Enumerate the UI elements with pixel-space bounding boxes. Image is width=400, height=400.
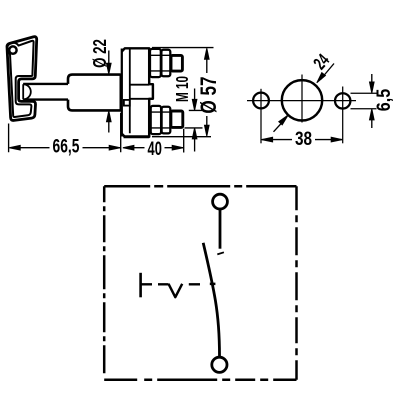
dim M10 arrows+ext [194,89,196,152]
dim 38 [262,139,342,141]
shaft D-end [23,84,31,99]
key outer outline [7,37,37,121]
cylinder O22 [68,75,121,111]
actuator V notch [169,284,183,297]
dim O22 arrows [108,51,110,133]
big circle vertical centerline [301,75,303,123]
dashed box top [104,185,296,188]
stud thread top M10 [171,55,182,71]
svg-text:24: 24 [310,50,334,74]
wire top [219,210,222,249]
dashed box right [295,186,298,380]
stud nut top 2 [161,50,170,77]
svg-text:66,5: 66,5 [53,135,80,157]
switch blade [203,243,219,356]
dim 66,5 [9,113,121,152]
dim 6,5 arrows [371,74,373,128]
svg-text:M 10: M 10 [174,76,193,102]
dim 6,5 ext lines [351,93,377,109]
svg-text:Ø 57: Ø 57 [197,76,222,113]
dim O57 ext lines [152,48,214,137]
actuator dashed link [142,283,216,286]
housing small box [124,100,130,106]
housing mid lines [130,85,149,99]
actuator T-bar [139,273,142,298]
small circle right centerline [342,87,344,144]
leader 24 lower [274,122,284,132]
svg-text:40: 40 [148,138,162,159]
shaft [23,84,68,100]
stud thread bottom M10 [171,111,183,127]
housing inner line [129,49,131,134]
dim 40 [183,129,185,153]
stud nut top 1 [150,49,161,77]
terminal circle top [213,194,228,209]
centerline horizontal [247,100,356,102]
svg-text:38: 38 [295,128,312,150]
small circle right [335,93,350,108]
key hole [9,46,16,53]
fixed contact tick [217,252,224,254]
big circle 24 [282,80,322,120]
small circle left [253,93,269,109]
dashed box bottom [104,379,296,382]
small circle left centerline [260,89,262,144]
stud nut bottom 2 [162,107,171,134]
housing left edge [121,49,123,137]
svg-text:6,5: 6,5 [373,89,395,112]
key inner outline with hole boss [7,41,34,117]
leader 24 upper [321,64,335,80]
stud nut bottom 1 [151,106,161,134]
dim O57 line [206,57,208,127]
dashed box left [103,186,106,380]
housing body [122,48,153,137]
bottom edge thick [124,135,150,138]
terminal circle bottom [212,357,227,372]
